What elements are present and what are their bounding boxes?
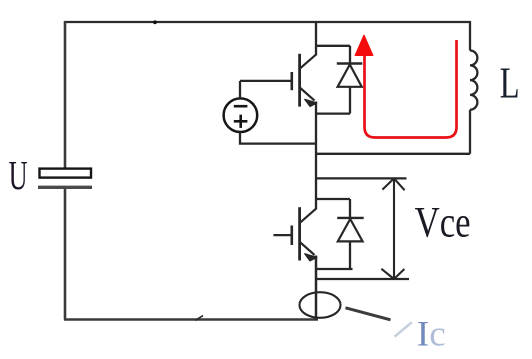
- wire collector drop from top bus: [315, 22, 317, 56]
- svg-text:Vce: Vce: [415, 199, 471, 246]
- IGBT Q1 (top): [240, 54, 316, 107]
- V1 bottom lead: [240, 132, 316, 144]
- capacitor U bottom plate: [38, 186, 92, 189]
- svg-text:U: U: [9, 152, 28, 198]
- wire left vertical lower: [64, 189, 67, 320]
- wire load bottom: [316, 153, 470, 155]
- Q1 body bar: [298, 54, 301, 107]
- wire top bus: [64, 21, 470, 23]
- Q2 collector diagonal: [300, 209, 316, 223]
- wire Q1 emitter-diode bottom link: [316, 112, 350, 114]
- svg-text:Ic: Ic: [417, 313, 446, 353]
- IGBT Q2 (bottom): [273, 207, 316, 260]
- wire Q1 collector-diode top link: [315, 45, 350, 47]
- wire left vertical upper: [64, 21, 67, 169]
- annotation pointer line: [346, 308, 391, 320]
- voltage source V1 circle: [224, 98, 258, 132]
- wire right vertical bottom: [469, 110, 471, 154]
- Q1 emitter arrowhead: [305, 99, 317, 106]
- Q2 body bar: [298, 207, 301, 260]
- Q1 gate bar: [290, 72, 293, 90]
- Q1 collector diagonal: [300, 55, 316, 69]
- Q1 gate lead: [240, 80, 291, 82]
- wire Q2 collector-diode top link: [315, 198, 350, 200]
- Q2 gate bar: [290, 226, 293, 246]
- wire Vce top ref line: [316, 177, 407, 179]
- diode D2 cathode bar: [337, 217, 364, 219]
- red current path: [365, 40, 457, 138]
- wire right vertical top: [469, 21, 471, 51]
- wire emitter bus to bottom: [315, 256, 318, 320]
- Vce measurement double arrow: [381, 178, 404, 279]
- faint tick mark: [395, 322, 412, 336]
- inductor L coil: [470, 51, 477, 110]
- tick mark on bottom bus: [195, 316, 203, 321]
- red arrow head: [355, 36, 372, 56]
- diode D1 cathode bar: [337, 62, 363, 64]
- Q1 emitter diagonal: [300, 88, 314, 101]
- current probe ellipse: [300, 292, 341, 318]
- wire middle bus: [315, 102, 317, 210]
- svg-text:L: L: [500, 59, 520, 108]
- Q2 emitter diagonal: [300, 242, 314, 255]
- V1 minus sign: [234, 105, 248, 108]
- diode D1 triangle: [338, 65, 362, 87]
- diode D2 anode lead: [349, 241, 351, 269]
- Q2 gate lead stub: [273, 234, 290, 236]
- Q2 emitter arrowhead: [305, 254, 317, 261]
- wire Vce bottom ref line: [316, 278, 409, 280]
- diode D1 anode lead: [349, 87, 351, 114]
- V1 top lead: [239, 81, 241, 98]
- diode D2 triangle: [338, 219, 363, 241]
- junction dot on top bus: [153, 20, 157, 24]
- V1 plus sign: [234, 120, 248, 123]
- diode D2 top lead: [349, 199, 351, 218]
- diode D1 top lead: [349, 46, 351, 64]
- capacitor U top plate: [40, 169, 92, 178]
- wire bottom bus: [64, 318, 318, 321]
- wire Q2 emitter-diode bottom link: [316, 268, 353, 270]
